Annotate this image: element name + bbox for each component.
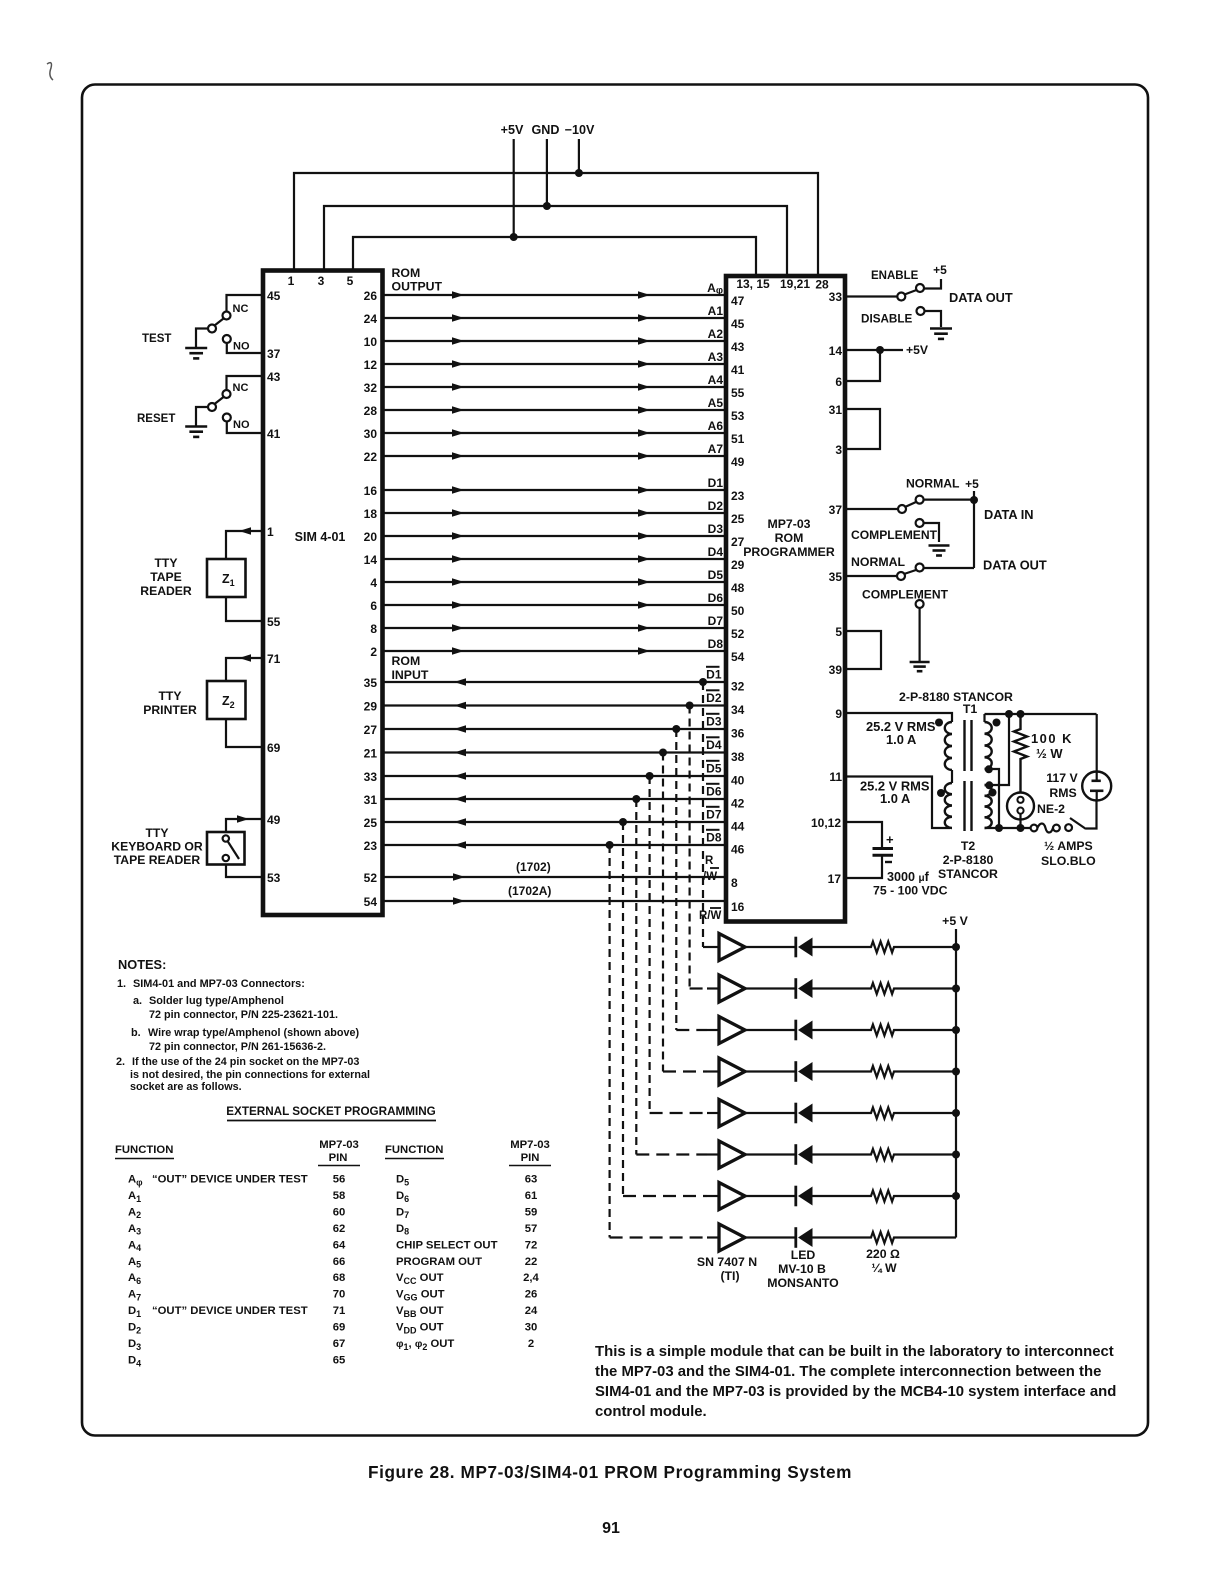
wire A1: SIM pin 24 to MP7-03 pin 45 [383,317,727,319]
buffer U3 (SN7407N) [707,1029,719,1031]
svg-text:1: 1 [267,525,274,539]
junction /D7 to LED driver tap [619,818,627,826]
svg-text:DISABLE: DISABLE [861,313,913,326]
svg-text:64: 64 [333,1239,346,1251]
svg-text:STANCOR: STANCOR [938,867,998,881]
svg-text:Z1: Z1 [222,572,235,588]
svg-text:40: 40 [731,774,745,788]
arrowhead /D1 into SIM [454,678,466,686]
wire LED 7 to resistor 7 [813,1195,868,1197]
junction +5V rail row 2 [952,985,960,993]
wire Z1 to SIM pin 55 [226,597,263,621]
svg-text:FUNCTION: FUNCTION [385,1144,443,1156]
wire dashed /D2 vertical to buffer row 2 [688,706,690,989]
wire LED 2 to resistor 2 [813,987,868,989]
arrowhead D4 right [638,555,650,563]
arrowhead A6 left [452,429,464,437]
svg-text:24: 24 [525,1305,538,1317]
svg-text:61: 61 [525,1190,538,1202]
wire +5 down to DATA OUT switch [973,491,975,568]
svg-text:50: 50 [731,604,745,618]
transformer T2 secondary winding [985,785,992,828]
svg-text:READER: READER [140,584,192,598]
wire T2 secondary top to hot rail [985,714,1010,785]
svg-text:31: 31 [829,403,843,417]
wire LED 1 to resistor 1 [813,946,868,948]
svg-text:D6: D6 [708,591,724,605]
svg-text:2: 2 [370,645,377,659]
svg-text:TTY: TTY [154,556,177,570]
arrowhead 1702 row [453,873,465,881]
svg-text:62: 62 [333,1223,346,1235]
svg-text:A4: A4 [128,1239,141,1253]
switch RESET NC contact [223,390,231,398]
switch TEST lever [215,319,224,326]
svg-text:2,4: 2,4 [523,1272,539,1284]
wire RESET NO to SIM pin 41 [227,422,263,434]
switch TEST: wire from SIM pin 45 [227,295,264,311]
svg-text:37: 37 [267,347,281,361]
wire Aphi: SIM pin 26 to MP7-03 pin 47 [383,294,727,296]
wire resistor 4 to +5V rail [898,1070,956,1072]
svg-text:52: 52 [364,871,378,885]
svg-text:TAPE: TAPE [150,570,182,584]
svg-text:PROGRAM OUT: PROGRAM OUT [396,1256,482,1268]
transformer T1 secondary winding [985,722,992,769]
svg-text:43: 43 [267,370,281,384]
svg-text:21: 21 [364,747,378,761]
wire capacitor to MP7-03 pin 17 [845,857,882,879]
svg-text:28: 28 [364,404,378,418]
junction +5V rail row 1 [952,943,960,951]
svg-text:72 pin connector, P/N 225-2362: 72 pin connector, P/N 225-23621-101. [149,1009,338,1021]
svg-text:LED: LED [791,1248,816,1262]
svg-text:RESET: RESET [137,413,175,425]
LED D4 (MV-10B) [794,1061,797,1082]
wire SIM pin 71 to Z2 [226,658,263,681]
svg-text:12: 12 [364,358,378,372]
wire /D1: MP7-03 pin 32 to SIM pin 35 [383,681,727,683]
svg-text:D2: D2 [128,1322,141,1336]
svg-text:24: 24 [364,312,378,326]
arrowhead /D3 into SIM [454,725,466,733]
arrowhead /D4 into SIM [454,749,466,757]
arrowhead D3 right [638,532,650,540]
switch contact (keyboard box top) [223,835,229,841]
svg-text:32: 32 [364,381,378,395]
junction neutral rail / T1 secondary return [995,824,1003,832]
resistor 220 ohm (3) [867,1025,898,1036]
junction hot rail / T2 feed [1005,710,1013,718]
svg-text:17: 17 [828,872,842,886]
wire SIM pin 52 to MP7-03 pin 8 (1702) [383,876,727,878]
wire dashed tap to buffer 6 input [636,1153,707,1155]
svg-text:48: 48 [731,581,745,595]
svg-text:69: 69 [267,741,281,755]
capacitor minus sign [885,861,892,863]
wire dashed tap to buffer 3 input [676,1029,707,1031]
arrowhead D8 left [452,647,464,655]
LED D3 (MV-10B) [794,1020,797,1041]
svg-text:A6: A6 [708,419,724,433]
wire A6: SIM pin 30 to MP7-03 pin 51 [383,432,727,434]
switch TEST NC contact [223,312,231,320]
arrowhead into Z2 wire [239,654,251,662]
svg-text:38: 38 [731,750,745,764]
wire buffer 7 to LED 7 [745,1195,795,1197]
arrowhead D6 right [638,601,650,609]
wire /D8: MP7-03 pin 46 to SIM pin 23 [383,844,727,846]
svg-text:SIM 4-01: SIM 4-01 [295,530,346,544]
svg-text:PIN: PIN [521,1152,540,1164]
junction /D1 to LED driver tap [699,678,707,686]
wire /D4: MP7-03 pin 38 to SIM pin 21 [383,751,727,753]
arrowhead A1 right [638,314,650,322]
switch COMPLEMENT contact (data in) [916,519,924,527]
svg-text:2: 2 [528,1338,534,1350]
svg-text:This is a simple module that c: This is a simple module that can be buil… [595,1344,1114,1360]
wire MP7-03 pin 14 to +5V [845,349,903,351]
IC MP7-03 ROM PROGRAMMER block [726,276,845,922]
svg-text:D8: D8 [708,637,724,651]
svg-text:32: 32 [731,680,745,694]
svg-text:+5V: +5V [501,123,524,137]
svg-text:MP7-03: MP7-03 [510,1139,550,1151]
svg-text:control module.: control module. [595,1404,707,1420]
wire +5V LED rail [955,929,957,1238]
svg-text:D5: D5 [706,761,722,775]
wire D4: SIM pin 14 to MP7-03 pin 29 [383,558,727,560]
svg-text:5: 5 [835,625,842,639]
svg-text:b.: b. [131,1027,141,1039]
wire buffer 2 to LED 2 [745,987,795,989]
svg-text:If the use of the 24 pin socke: If the use of the 24 pin socket on the M… [132,1056,359,1068]
arrowhead D6 left [452,601,464,609]
wire LED 6 to resistor 6 [813,1153,868,1155]
svg-text:NO: NO [233,341,250,353]
svg-text:D4: D4 [706,738,722,752]
arrowhead D4 left [452,555,464,563]
arrowhead D8 right [638,647,650,655]
source 117V RMS [1082,772,1111,801]
arrowhead A5 left [452,406,464,414]
wire dashed tap to buffer 4 input [663,1070,707,1072]
lamp NE-2 [1007,793,1034,820]
svg-text:1.0 A: 1.0 A [880,791,910,806]
wire dashed /D8 vertical to buffer row 8 [608,845,610,1238]
wire buffer 4 to LED 4 [745,1070,795,1072]
svg-text:3: 3 [835,443,842,457]
wire -10V bus: SIM pin 1 to MP7-03 pin 28 [294,173,818,276]
wire /D3: MP7-03 pin 36 to SIM pin 27 [383,728,727,730]
svg-text:D4: D4 [128,1354,141,1368]
junction +5V rail row 3 [952,1026,960,1034]
wire resistor 7 to +5V rail [898,1195,956,1197]
wire A2: SIM pin 10 to MP7-03 pin 43 [383,340,727,342]
svg-text:D4: D4 [708,545,724,559]
wire -10V stub [578,139,580,173]
svg-text:A3: A3 [708,350,724,364]
svg-text:3: 3 [318,274,325,288]
svg-text:D2: D2 [708,499,724,513]
svg-text:FUNCTION: FUNCTION [115,1144,173,1156]
svg-text:41: 41 [267,427,281,441]
svg-text:D3: D3 [706,714,722,728]
wire COMPLEMENT (data in) to ground [924,523,939,542]
arrowhead Aphi right [638,291,650,299]
wire GND stub [546,139,548,206]
svg-text:GND: GND [532,123,560,137]
wire MP7-03 pins 10,12 to capacitor [845,822,882,847]
svg-text:TEST: TEST [142,333,171,345]
wire D3: SIM pin 20 to MP7-03 pin 27 [383,535,727,537]
arrowhead A5 right [638,406,650,414]
switch RESET pivot contact [208,403,216,411]
wire A3: SIM pin 12 to MP7-03 pin 41 [383,363,727,365]
svg-text:+5V: +5V [906,343,929,357]
wire dashed tap to buffer 8 input [610,1236,707,1238]
svg-text:“OUT” DEVICE UNDER TEST: “OUT” DEVICE UNDER TEST [152,1174,308,1186]
svg-text:71: 71 [333,1305,346,1317]
svg-text:INPUT: INPUT [392,668,429,682]
junction -10V on bus [575,169,583,177]
svg-text:47: 47 [731,294,745,308]
svg-text:68: 68 [333,1272,346,1284]
svg-text:55: 55 [267,615,281,629]
switch NORMAL contact (data out) [916,564,924,572]
buffer U7 (SN7407N) [707,1195,719,1197]
arrowhead A7 right [638,452,650,460]
wire T1 primary to T2 primary (series) [951,770,953,783]
device TTY keyboard/tape reader switch box [207,832,245,865]
resistor 220 ohm (8) [867,1232,898,1243]
svg-text:R/W: R/W [699,910,722,922]
svg-text:100 K: 100 K [1031,731,1073,746]
svg-text:220 Ω: 220 Ω [866,1247,900,1261]
resistor 220 ohm (5) [867,1108,898,1119]
svg-text:D7: D7 [706,807,722,821]
switch blade (keyboard box) [228,841,240,859]
wire D8: SIM pin 2 to MP7-03 pin 54 [383,650,727,652]
svg-text:52: 52 [731,627,745,641]
svg-text:65: 65 [333,1354,346,1366]
svg-text:66: 66 [333,1256,346,1268]
svg-text:VCC OUT: VCC OUT [396,1272,444,1286]
svg-text:39: 39 [829,663,843,677]
svg-text:6: 6 [370,599,377,613]
wire switch box to SIM pin 53 [226,865,263,878]
svg-text:D5: D5 [708,568,724,582]
transformer T1 core [963,720,965,771]
svg-text:69: 69 [333,1322,346,1334]
svg-text:60: 60 [333,1206,346,1218]
transformer T2 core [963,781,965,831]
svg-text:31: 31 [364,793,378,807]
svg-text:26: 26 [525,1289,538,1301]
svg-text:2-P-8180: 2-P-8180 [943,853,994,867]
svg-text:½ AMPS: ½ AMPS [1044,839,1093,853]
svg-text:23: 23 [731,489,745,503]
svg-text:¼ W: ¼ W [871,1261,897,1275]
arrowhead 1702A row [453,897,465,905]
wire /D7: MP7-03 pin 44 to SIM pin 25 [383,821,727,823]
wire SIM pin 1 (left) to Z1 [226,531,263,559]
wire dashed tap to buffer 1 input [703,946,707,948]
polarity dot T2 secondary [989,789,997,797]
svg-text:/W: /W [703,871,717,883]
junction /D5 to LED driver tap [646,772,654,780]
svg-text:(1702A): (1702A) [508,884,551,898]
switch pole contact (pin37) [898,505,906,513]
svg-text:30: 30 [525,1322,538,1334]
svg-text:10: 10 [364,335,378,349]
switch lever enable [905,290,917,295]
junction GND on bus [543,202,551,210]
junction +5V rail row 5 [952,1109,960,1117]
svg-text:49: 49 [267,813,281,827]
ground (RESET switch) [185,425,207,428]
svg-text:ROM: ROM [775,531,804,545]
svg-text:42: 42 [731,797,745,811]
wire LED 5 to resistor 5 [813,1112,868,1114]
wire /D6: MP7-03 pin 42 to SIM pin 31 [383,798,727,800]
wire RESET pivot to ground [196,407,208,426]
arrowhead toward SIM pin 49 [237,815,249,823]
svg-text:MONSANTO: MONSANTO [767,1276,839,1290]
arrowhead /D6 into SIM [454,795,466,803]
svg-text:SIM4-01 and MP7-03 Connectors:: SIM4-01 and MP7-03 Connectors: [133,978,305,990]
svg-text:NC: NC [233,303,249,315]
arrowhead A4 left [452,383,464,391]
svg-text:NC: NC [233,382,249,394]
wire resistor 3 to +5V rail [898,1029,956,1031]
svg-text:MV-10 B: MV-10 B [778,1262,826,1276]
buffer U1 (SN7407N) [707,946,719,948]
wire T1 secondary top to 117V rail [983,714,985,722]
svg-text:SIM4-01 and the MP7-03 is prov: SIM4-01 and the MP7-03 is provided by th… [595,1384,1116,1400]
switch lever (pin35) [904,570,916,574]
svg-text:8: 8 [731,876,738,890]
wire A4: SIM pin 32 to MP7-03 pin 55 [383,386,727,388]
svg-text:D3: D3 [128,1338,141,1352]
svg-text:29: 29 [731,558,745,572]
svg-text:(TI): (TI) [720,1269,739,1283]
svg-text:35: 35 [829,570,843,584]
resistor 220 ohm (4) [867,1066,898,1077]
junction /D6 to LED driver tap [632,795,640,803]
wire fuse to 117V source [1086,801,1097,829]
arrowhead D5 left [452,578,464,586]
polarity dot T2 primary [937,789,945,797]
svg-text:6: 6 [835,375,842,389]
svg-text:½ W: ½ W [1036,746,1063,761]
svg-text:SN 7407 N: SN 7407 N [697,1255,757,1269]
ground (disable) [930,327,952,330]
arrowhead D3 left [452,532,464,540]
transformer T2 primary winding [945,783,952,828]
svg-text:D2: D2 [706,691,722,705]
svg-text:11: 11 [829,770,842,784]
wire +5V bus: SIM pin 5 to MP7-03 pins 13,15 [353,237,756,276]
svg-text:9: 9 [835,707,842,721]
switch pole contact (pin33) [897,293,905,301]
svg-text:30: 30 [364,427,378,441]
wire D7: SIM pin 8 to MP7-03 pin 52 [383,627,727,629]
wire COMPLEMENT (data out) to ground [918,608,920,661]
svg-text:PIN: PIN [329,1152,348,1164]
wire NORMAL (data out) to +5 node [924,567,974,569]
svg-text:(1702): (1702) [516,860,551,874]
svg-text:T2: T2 [961,839,976,853]
svg-text:+5 V: +5 V [942,914,968,928]
wire resistor 5 to +5V rail [898,1112,956,1114]
svg-text:TTY: TTY [145,826,168,840]
wire LED 4 to resistor 4 [813,1070,868,1072]
resistor 220 ohm (7) [867,1191,898,1202]
svg-text:NORMAL: NORMAL [906,477,960,491]
svg-text:35: 35 [364,676,378,690]
svg-text:D5: D5 [396,1174,409,1188]
svg-text:SLO.BLO: SLO.BLO [1041,854,1096,868]
svg-text:91: 91 [602,1520,620,1537]
svg-text:a.: a. [133,995,142,1007]
arrowhead A2 left [452,337,464,345]
ground (complement data in) [929,544,950,547]
svg-text:3000 μf: 3000 μf [887,870,930,884]
svg-text:2-P-8180 STANCOR: 2-P-8180 STANCOR [899,690,1013,704]
svg-text:20: 20 [364,530,378,544]
svg-text:D6: D6 [706,784,722,798]
wire dashed /D3 vertical to buffer row 3 [675,729,677,1030]
svg-text:26: 26 [364,289,378,303]
svg-text:22: 22 [364,450,378,464]
arrowhead D1 left [452,486,464,494]
svg-text:A3: A3 [128,1223,141,1237]
polarity dot T1 primary [935,719,943,727]
svg-text:EXTERNAL SOCKET PROGRAMMING: EXTERNAL SOCKET PROGRAMMING [226,1105,436,1118]
svg-text:TTY: TTY [158,689,181,703]
svg-text:NE-2: NE-2 [1037,802,1065,816]
svg-text:4: 4 [370,576,377,590]
wire MP7-03 pin 9 to T1 primary [845,713,952,722]
LED D6 (MV-10B) [794,1144,797,1165]
svg-text:A2: A2 [708,327,724,341]
svg-text:RMS: RMS [1049,786,1076,800]
svg-text:Z2: Z2 [222,694,235,710]
wire T1 secondary bottom down to neutral rail [985,769,1000,828]
svg-text:φ1, φ2 OUT: φ1, φ2 OUT [396,1338,454,1352]
svg-text:41: 41 [731,363,745,377]
svg-text:18: 18 [364,507,378,521]
arrowhead D7 right [638,624,650,632]
arrowhead A2 right [638,337,650,345]
resistor 100K [1019,714,1021,726]
svg-text:MP7-03: MP7-03 [767,517,810,531]
wire TTY keyboard switch to SIM pin 49 [226,819,263,832]
switch TEST pivot contact [208,325,216,333]
ground (complement data out) [910,661,930,664]
svg-text:Solder lug type/Amphenol: Solder lug type/Amphenol [149,995,284,1007]
svg-text:+5: +5 [965,477,979,491]
svg-text:A6: A6 [128,1272,141,1286]
svg-text:49: 49 [731,455,745,469]
svg-text:10,12: 10,12 [811,816,841,830]
wire buffer 1 to LED 1 [745,946,795,948]
svg-text:ENABLE: ENABLE [871,270,919,282]
svg-text:VDD OUT: VDD OUT [396,1322,444,1336]
fuse switch blade [1070,818,1086,829]
wire /D5: MP7-03 pin 40 to SIM pin 33 [383,775,727,777]
